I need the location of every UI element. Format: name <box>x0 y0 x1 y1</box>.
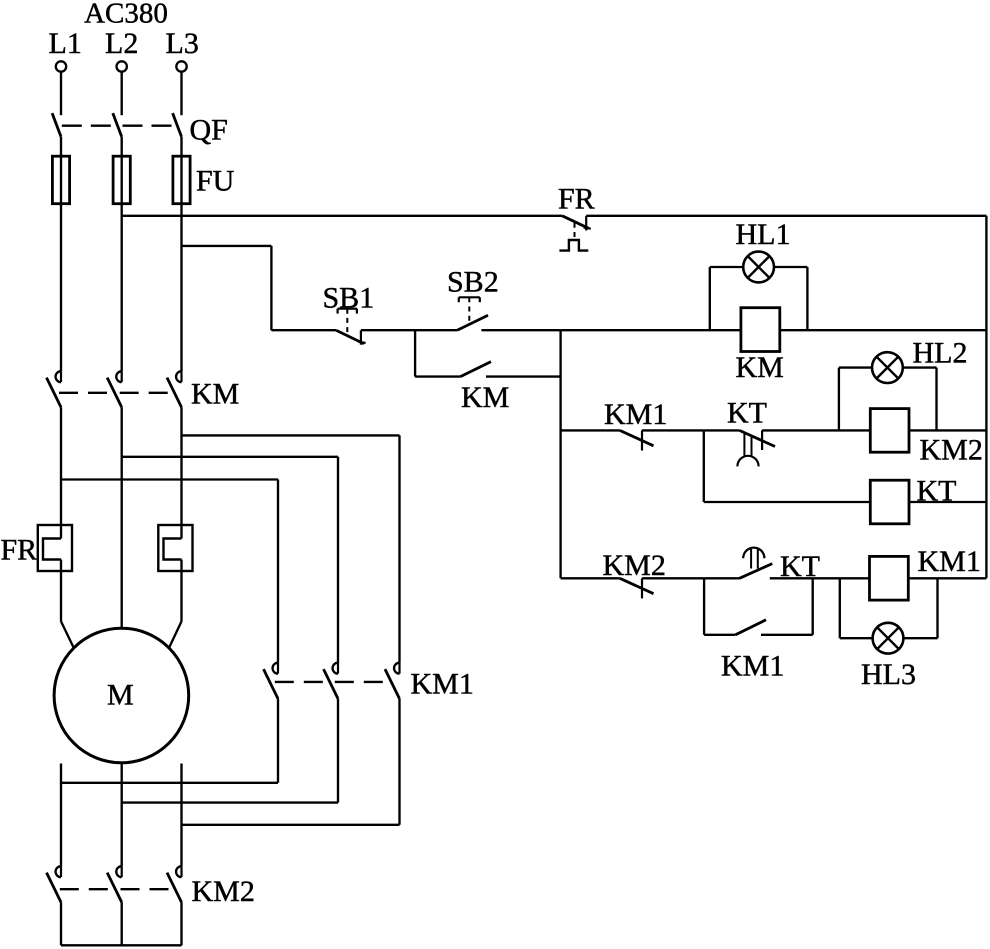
wire KM1 contact to KT contact <box>642 429 739 431</box>
label KM2 (coil) <box>920 434 983 467</box>
svg-text:FR: FR <box>558 183 595 216</box>
wire KT contact to KM2 coil <box>762 429 870 431</box>
wire QF to FU L3 <box>180 137 182 157</box>
wire L1 to QF <box>60 71 62 115</box>
svg-text:SB2: SB2 <box>447 266 499 299</box>
coil KM1 <box>870 556 909 600</box>
wire KM1 coil to right rail <box>908 577 986 579</box>
label SB2 <box>447 266 499 299</box>
label L1 <box>49 27 82 60</box>
fuse FU3 <box>173 156 190 204</box>
wire motor lead 3 <box>180 764 182 867</box>
circuit breaker QF pole 1 blade <box>52 113 61 137</box>
svg-text:L3: L3 <box>166 27 199 60</box>
label FR (contact) <box>558 183 595 216</box>
wire tap L3 to KM1 pole 3 <box>182 435 400 662</box>
KM1 pole link (dashed) <box>275 681 392 683</box>
label M <box>107 679 134 712</box>
wire motor lead 2 <box>121 763 123 866</box>
label AC380 <box>84 0 168 30</box>
label KM2 (NC contact) <box>603 549 666 582</box>
contact KM auxiliary (NO) <box>460 362 491 377</box>
fuse FU1 <box>52 156 69 204</box>
wire control supply right <box>586 215 986 217</box>
wire main row left <box>271 329 336 331</box>
wire FR to motor L3 <box>169 560 182 649</box>
svg-text:KM1: KM1 <box>411 668 474 701</box>
QF pole link (dashed) <box>62 125 178 127</box>
wire KM to FR L3 <box>180 407 182 538</box>
circuit breaker QF pole 3 blade <box>173 113 182 137</box>
label HL3 <box>861 658 916 691</box>
svg-text:L2: L2 <box>105 27 138 60</box>
thermal relay FR heater element 2 <box>158 525 192 571</box>
wire KM2 coil to right rail <box>909 429 986 431</box>
wire KM aux branch <box>415 330 460 376</box>
wire KM1 aux up <box>761 578 813 635</box>
thermal relay FR heater element 1 <box>38 525 72 571</box>
label KM1 (aux contact) <box>721 650 784 683</box>
label L2 <box>105 27 138 60</box>
contactor KM pole 3 <box>167 371 182 407</box>
label FU <box>196 165 235 198</box>
fuse FU2 <box>113 156 130 204</box>
wire KM2 pole1 down <box>60 902 62 945</box>
svg-text:L1: L1 <box>49 27 82 60</box>
wire rail to KM coil <box>561 329 741 331</box>
coil KM2 <box>870 409 909 453</box>
lamp HL1 <box>710 252 808 331</box>
contactor KM2 pole 2 <box>107 866 122 902</box>
svg-text:M: M <box>107 679 134 712</box>
contactor KM2 pole 3 <box>167 866 182 902</box>
label L3 <box>166 27 199 60</box>
svg-text:QF: QF <box>190 114 228 147</box>
wire FU to KM L3 <box>180 204 182 372</box>
wire rail to KM2 contact <box>561 577 620 579</box>
contactor KM2 pole 1 <box>47 866 62 902</box>
label KM1 (NC contact) <box>604 398 667 431</box>
label KT (NC contact) <box>727 397 767 430</box>
lamp HL3 <box>840 578 938 653</box>
coil KM <box>741 308 780 352</box>
contact KM2 (NC) <box>620 578 654 598</box>
KM2 pole link (dashed) <box>60 888 176 890</box>
wire L2 to QF <box>121 71 123 115</box>
label KM (coil) <box>736 351 784 384</box>
wire KM2 pole3 down <box>180 902 182 945</box>
label HL1 <box>736 218 791 251</box>
wire SB1 to SB2 <box>361 329 457 331</box>
wire KM2 contact to KT contact <box>642 577 740 579</box>
label SB1 <box>323 282 375 315</box>
wire tap L1 to KM1 pole 1 <box>61 480 278 663</box>
label FR (heaters) <box>1 534 38 567</box>
svg-text:FU: FU <box>196 165 235 198</box>
contactor KM1 pole 3 <box>385 663 400 699</box>
wire right rail <box>985 216 987 579</box>
node L2 terminal <box>117 61 127 71</box>
svg-text:KM: KM <box>736 351 784 384</box>
wire lead2 to KM1 pole2 <box>122 699 338 803</box>
label KM (main contactor) <box>191 378 239 411</box>
wire lead1 to KM1 pole1 <box>61 699 278 783</box>
wire KT coil branch <box>704 430 871 502</box>
svg-text:KM: KM <box>191 378 239 411</box>
wire lead3 to KM1 pole3 <box>182 699 400 825</box>
wire L2 down <box>121 407 123 628</box>
label KM (aux contact) <box>461 381 509 414</box>
lamp HL2 <box>839 352 937 430</box>
contact KT (NO, time-delay) <box>740 548 773 579</box>
coil KT <box>870 480 909 524</box>
wire tap from L3 <box>182 246 272 330</box>
svg-text:HL1: HL1 <box>736 218 791 251</box>
motor M <box>54 628 189 763</box>
wire motor lead 1 <box>60 764 62 867</box>
contactor KM1 pole 1 <box>264 663 279 699</box>
svg-text:KM2: KM2 <box>920 434 983 467</box>
wire tap L2 to KM1 pole 2 <box>122 457 338 663</box>
svg-text:AC380: AC380 <box>84 0 168 30</box>
wire KM to FR L1 <box>60 407 62 538</box>
label KM1 (coil) <box>918 545 981 578</box>
wire star bus <box>61 944 182 946</box>
label HL2 <box>913 337 968 370</box>
svg-text:KM2: KM2 <box>192 875 255 908</box>
contact KT (NC, time-delay) <box>737 430 775 466</box>
svg-text:HL2: HL2 <box>913 337 968 370</box>
svg-text:KM: KM <box>461 381 509 414</box>
label KM1 (contactor) <box>411 668 474 701</box>
wire KM1 aux branch <box>704 578 735 635</box>
wire QF to FU L1 <box>60 137 62 157</box>
thermal relay FR contact <box>559 216 590 251</box>
wire control supply from L2 <box>122 215 563 217</box>
svg-text:KM1: KM1 <box>604 398 667 431</box>
circuit breaker QF pole 2 blade <box>113 113 122 137</box>
label KT (coil) <box>917 475 957 508</box>
svg-text:KM1: KM1 <box>918 545 981 578</box>
contact KM1 auxiliary (NO) <box>736 620 767 635</box>
pushbutton SB2 (NO) <box>457 297 488 330</box>
KM pole link (dashed) <box>59 392 175 394</box>
svg-text:FR: FR <box>1 534 38 567</box>
wire KM2 pole2 down <box>121 902 123 945</box>
wire FU to KM L2 <box>121 204 123 372</box>
svg-text:KM2: KM2 <box>603 549 666 582</box>
wire rail to KM1 contact <box>561 429 620 431</box>
wire FU to KM L1 <box>60 204 62 372</box>
wire FR to motor L1 <box>61 560 74 649</box>
wire KT contact to KM1 coil <box>770 577 870 579</box>
node L3 terminal <box>176 61 186 71</box>
svg-text:HL3: HL3 <box>861 658 916 691</box>
svg-text:SB1: SB1 <box>323 282 375 315</box>
pushbutton SB1 (NC) <box>336 309 366 345</box>
label KM2 (contactor) <box>192 875 255 908</box>
contactor KM1 pole 2 <box>324 663 339 699</box>
wire L3 to QF <box>180 71 182 115</box>
node L1 terminal <box>56 61 66 71</box>
contactor KM pole 1 <box>47 371 62 407</box>
label QF <box>190 114 228 147</box>
contact KM1 (NC) <box>620 430 654 450</box>
wire KM coil to right rail <box>780 329 987 331</box>
wire QF to FU L2 <box>121 137 123 157</box>
wire KM aux to rail <box>486 375 561 377</box>
contactor KM pole 2 <box>107 371 122 407</box>
svg-text:KT: KT <box>727 397 767 430</box>
wire KT coil to right rail <box>909 501 986 503</box>
svg-text:KM1: KM1 <box>721 650 784 683</box>
wire left rail <box>559 330 561 578</box>
wire SB2 to rail <box>481 329 560 331</box>
label KT (NO contact) <box>780 550 820 583</box>
